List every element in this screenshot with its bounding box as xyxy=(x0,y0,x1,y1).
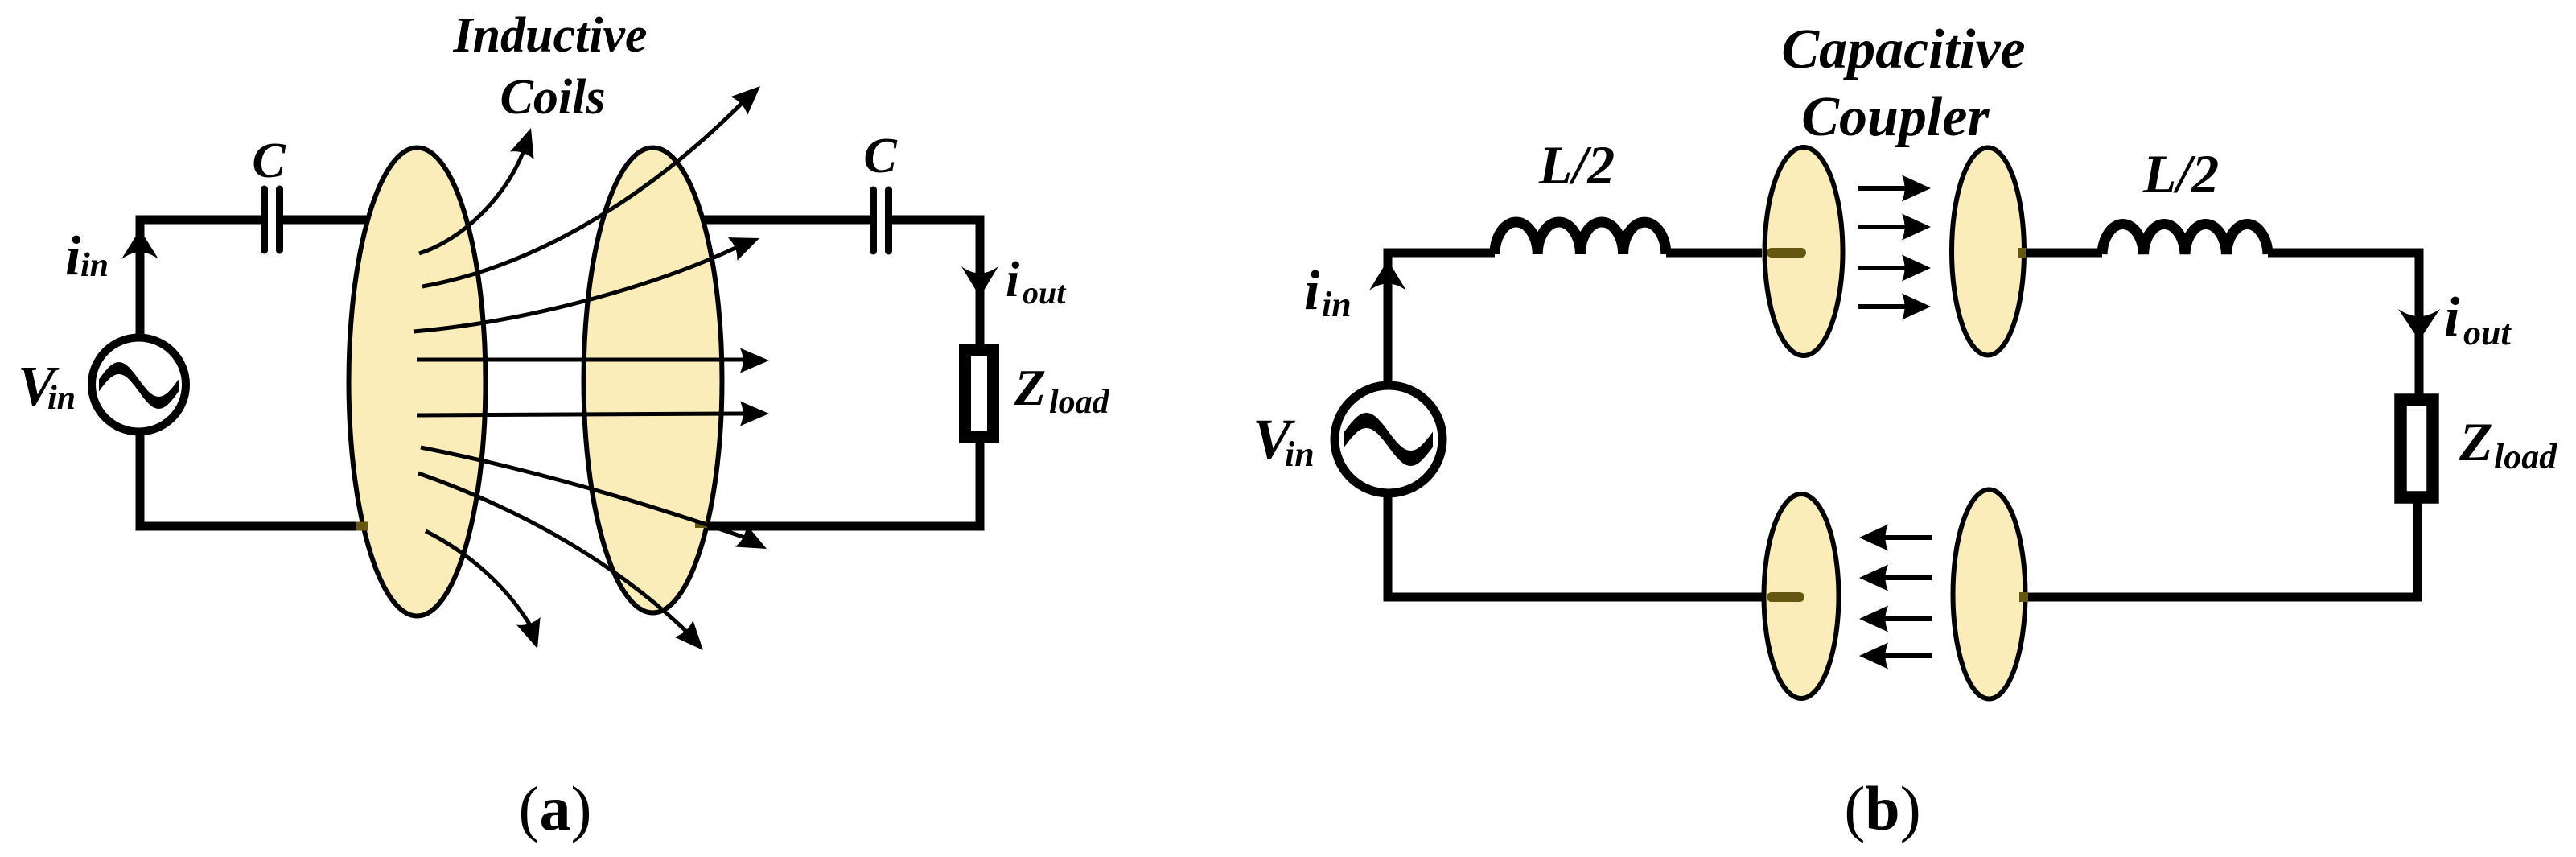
arrow i_in xyxy=(1369,260,1406,290)
coupler plate P4 (bottom-right) xyxy=(1953,490,2026,699)
field line E xyxy=(417,414,743,415)
svg-text:out: out xyxy=(1023,274,1067,311)
source Vin circle xyxy=(1335,385,1442,493)
wire top-right (coil L2 to C) xyxy=(703,216,870,225)
wire L1 to plate xyxy=(1666,249,1762,258)
capacitor C left plates xyxy=(261,189,268,250)
inductor L/2 left xyxy=(1495,222,1666,254)
field arrows bottom (4 left) xyxy=(1859,525,1932,670)
svg-text:in: in xyxy=(80,247,109,284)
svg-text:Coils: Coils xyxy=(500,70,606,125)
inductor L/2 right xyxy=(2102,224,2268,254)
coupler plate P2 (top-right) xyxy=(1952,148,2024,356)
svg-text:Z: Z xyxy=(1014,359,1046,416)
svg-text:i: i xyxy=(1006,253,1019,307)
field line F xyxy=(421,447,744,538)
svg-text:Capacitive: Capacitive xyxy=(1781,19,2025,80)
svg-text:in: in xyxy=(1322,285,1352,324)
svg-text:Coupler: Coupler xyxy=(1801,86,1990,148)
node bottom-left junction xyxy=(356,522,368,531)
svg-text:(a): (a) xyxy=(519,773,592,843)
svg-text:load: load xyxy=(1049,384,1110,421)
coupler plate P1 (top-left) xyxy=(1765,147,1843,356)
field line D xyxy=(417,358,743,362)
svg-text:in: in xyxy=(47,380,76,417)
field arrows top (4 right) xyxy=(1858,175,1931,320)
wire C to Zload corner xyxy=(891,220,980,344)
field line B xyxy=(422,104,742,286)
capacitor C right plates xyxy=(870,190,877,251)
nub at plate P2 xyxy=(2018,248,2027,258)
svg-text:i: i xyxy=(1304,260,1320,322)
svg-text:Inductive: Inductive xyxy=(452,8,647,63)
field line A xyxy=(419,152,523,253)
resistor Zload xyxy=(2401,400,2433,497)
arrow i_out xyxy=(961,266,998,297)
svg-text:Z: Z xyxy=(2459,411,2493,472)
svg-text:C: C xyxy=(863,129,897,183)
wire Zload to bottom xyxy=(706,439,980,526)
field line G xyxy=(418,473,686,631)
wire C to coil L1 xyxy=(281,216,368,225)
wire top-left (Vin to L1) xyxy=(1388,253,1495,383)
field line H xyxy=(426,531,529,624)
svg-text:in: in xyxy=(1285,435,1315,474)
stub into plate P1 xyxy=(1772,248,1801,258)
coupler plate P3 (bottom-left) xyxy=(1764,494,1839,698)
sine symbol xyxy=(1344,413,1433,466)
source Vin circle xyxy=(92,338,186,432)
svg-text:L/2: L/2 xyxy=(2142,143,2219,204)
wire bottom-left xyxy=(1388,492,1762,597)
wire top-left (Vin to C) xyxy=(140,220,263,339)
sine symbol xyxy=(99,362,179,409)
coil L1 (left ellipse) xyxy=(349,148,486,616)
stub into plate P3 xyxy=(1772,592,1800,602)
resistor Zload xyxy=(965,351,994,437)
coil L2 (right ellipse) xyxy=(584,148,722,613)
node bottom-right junction xyxy=(695,521,707,528)
nub at plate P4 xyxy=(2019,592,2028,602)
svg-text:i: i xyxy=(2444,286,2460,348)
wire P2 to L2 xyxy=(2026,249,2102,258)
svg-text:(b): (b) xyxy=(1844,773,1920,843)
svg-text:C: C xyxy=(252,134,286,188)
wire L2 to Zload corner xyxy=(2268,253,2419,394)
arrow i_out xyxy=(2398,309,2440,340)
svg-text:load: load xyxy=(2494,437,2557,476)
wire Zload to bottom xyxy=(2027,503,2418,597)
field line C xyxy=(414,248,735,332)
arrow i_in xyxy=(121,229,158,259)
svg-text:out: out xyxy=(2463,313,2512,352)
svg-text:L/2: L/2 xyxy=(1538,134,1615,196)
svg-text:i: i xyxy=(65,225,81,287)
wire bottom-left xyxy=(140,431,364,526)
